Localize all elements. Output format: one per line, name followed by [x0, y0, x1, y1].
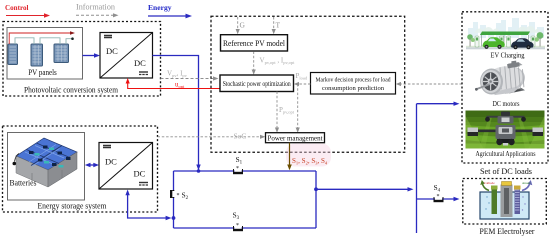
PV panel 1: [8, 44, 18, 65]
svg-text:DC motors: DC motors: [493, 101, 520, 108]
control system dashed box: [211, 16, 405, 152]
svg-text:Agricultural Applications: Agricultural Applications: [476, 151, 536, 158]
DC/DC converter U1 (PV): [100, 33, 153, 79]
svg-text:*: *: [437, 194, 440, 200]
bus bottom wire with S3: [174, 227, 317, 229]
bus top wire with S1: [174, 170, 317, 172]
svg-text:DC: DC: [105, 157, 117, 167]
svg-text:DC: DC: [134, 58, 146, 68]
wire u_opt control: [126, 78, 220, 89]
legend Energy arrow: [148, 14, 192, 19]
wire loads info to Markov: [396, 82, 462, 86]
wire V_pv I_pv measurement: [161, 70, 219, 81]
Photovoltaic conversion system dashed box: [3, 22, 161, 97]
switch S1: [232, 155, 244, 174]
PV panels box: [7, 28, 83, 80]
Power management box: [266, 133, 325, 143]
wire P_pv,opt Stochastic to Power management: [275, 92, 295, 133]
svg-text:PV panels: PV panels: [28, 68, 57, 77]
wire SoC to Power management: [158, 132, 266, 141]
svg-text:Photovoltaic conversion system: Photovoltaic conversion system: [24, 86, 119, 95]
svg-text:*: *: [236, 166, 239, 172]
PV panel 3: [54, 44, 69, 63]
Stochastic power optimization box: [220, 75, 294, 92]
Markov decision box: [311, 73, 396, 95]
legend Energy label: [148, 3, 172, 12]
DC motor image: [475, 61, 525, 108]
legend Information arrow: [76, 13, 119, 17]
svg-text:G: G: [240, 21, 246, 30]
svg-text:*: *: [236, 223, 239, 229]
EV charging image: [466, 14, 545, 60]
PV string interconnect wire: [15, 37, 74, 44]
svg-text:Reference PV model: Reference PV model: [223, 39, 286, 48]
PEM Electrolyser dashed box: [463, 179, 547, 237]
switch S2: [170, 188, 189, 201]
Batteries box: [8, 133, 85, 201]
wire battery converter to bus (bidirectional): [125, 190, 171, 221]
wire main bus to DC loads: [417, 102, 460, 106]
svg-text:Stochastic power optimization: Stochastic power optimization: [223, 81, 291, 88]
node A junction: [172, 216, 176, 220]
agricultural applications image: [466, 111, 545, 159]
svg-text:Cathode: Cathode: [484, 181, 495, 185]
svg-text:Energy storage system: Energy storage system: [38, 202, 108, 211]
svg-text:*: *: [177, 193, 180, 199]
svg-text:DC: DC: [106, 46, 118, 56]
wire main bus to PEM with S4: [417, 197, 460, 201]
battery pack image: [13, 138, 78, 187]
svg-text:DC: DC: [134, 169, 146, 179]
Reference PV model box: [221, 35, 288, 51]
svg-text:Markov decision process for lo: Markov decision process for load: [316, 77, 392, 84]
PV panel 2: [31, 44, 43, 66]
svg-text:Power management: Power management: [268, 134, 323, 143]
Energy storage system dashed box: [3, 126, 158, 212]
svg-text:SoC: SoC: [234, 132, 247, 141]
legend Information label: [76, 3, 115, 12]
svg-text:PEM Electrolyser: PEM Electrolyser: [480, 226, 535, 236]
wire batteries to converter (bidirectional): [85, 163, 99, 167]
bus right wire: [315, 171, 317, 228]
svg-text:S1, S2, S3, S4: S1, S2, S3, S4: [292, 157, 328, 166]
wire P_load Markov to Stochastic: [294, 72, 311, 86]
svg-text:Energy: Energy: [148, 3, 172, 12]
svg-text:consumption prediction: consumption prediction: [322, 85, 385, 92]
wire PV panels to converter: [83, 53, 101, 57]
svg-text:Set of DC loads: Set of DC loads: [480, 166, 533, 176]
switch S4: [433, 183, 445, 202]
switch S3: [232, 211, 244, 232]
wire G input: [236, 17, 246, 34]
svg-text:Anode: Anode: [522, 181, 531, 185]
svg-text:T: T: [276, 21, 281, 30]
wire P_load down to Power management: [296, 84, 300, 133]
main DC bus vertical wire: [416, 104, 418, 233]
svg-text:Control: Control: [5, 3, 29, 12]
wire Vpvopt Ipvopt: [252, 52, 295, 75]
wire converter output to bus: [153, 56, 201, 173]
PEM electrolyser image: [480, 180, 532, 219]
legend Control arrow: [6, 13, 50, 18]
wire T input: [272, 17, 281, 34]
bus left wire with S2: [173, 171, 175, 228]
svg-text:Information: Information: [76, 3, 115, 12]
Set of DC loads dashed box: [462, 12, 548, 176]
svg-text:EV Charging: EV Charging: [491, 51, 525, 60]
wire switch control S1-S4: [286, 143, 331, 171]
DC/DC converter U2 (battery): [99, 143, 153, 190]
legend Control label: [5, 3, 29, 12]
node B junction: [314, 187, 318, 191]
wire bus to main DC bus: [316, 187, 414, 191]
PV string red wire: [9, 31, 75, 44]
